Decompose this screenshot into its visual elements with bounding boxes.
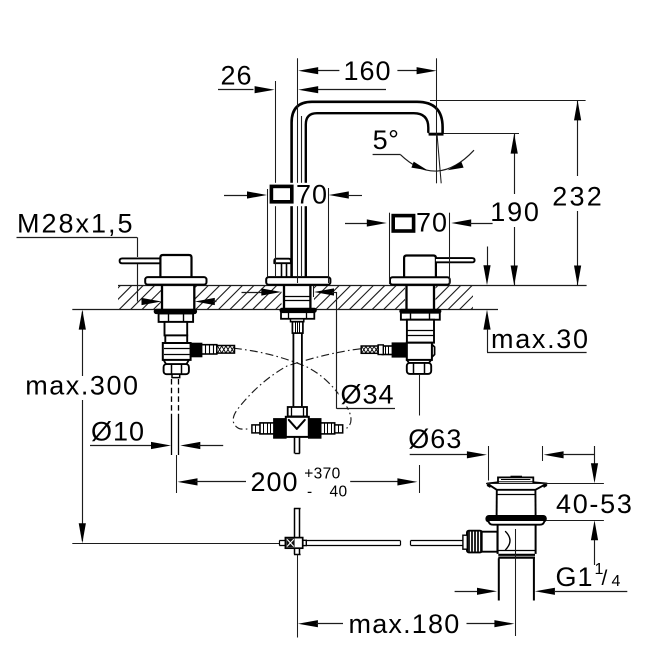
dimension 232 line xyxy=(577,100,579,176)
right handle body xyxy=(404,256,436,278)
vertical pull rod xyxy=(294,508,296,538)
max180 dim line left xyxy=(298,620,318,627)
svg-text:Ø10: Ø10 xyxy=(91,417,145,447)
svg-text:232: 232 xyxy=(552,181,604,211)
rod coupling block xyxy=(285,538,302,549)
dia63 left extension xyxy=(488,446,490,481)
drain tail pipe xyxy=(498,558,500,600)
svg-text:M28x1,5: M28x1,5 xyxy=(17,209,135,239)
square70 centre square symbol xyxy=(271,186,291,201)
right hose nut xyxy=(392,343,406,357)
square70 centre label backing xyxy=(268,183,327,206)
right hose connector xyxy=(382,346,392,355)
dia34 leader vertical xyxy=(336,292,338,409)
left handle lever xyxy=(120,258,161,263)
left hose nut xyxy=(191,344,202,357)
left braided hose xyxy=(217,346,235,354)
drain flange lip xyxy=(489,521,545,525)
square70 right right extension xyxy=(449,213,451,284)
centre shank in deck xyxy=(283,285,285,308)
left valve outlet stub xyxy=(172,374,180,377)
max180 right extension (drain centreline) xyxy=(515,529,517,636)
svg-text:G1: G1 xyxy=(556,562,594,592)
left valve bottom nut xyxy=(164,364,189,374)
extension line spout tip x=436.8 xyxy=(436,58,438,183)
spout mouth aerator xyxy=(429,133,444,136)
dimension 26 leader xyxy=(218,89,254,91)
svg-text:70: 70 xyxy=(416,208,448,238)
pull rod solid xyxy=(171,419,173,455)
right braided hose xyxy=(361,346,378,353)
left washer xyxy=(154,309,196,313)
M28 left arrow xyxy=(142,298,162,305)
tee outlet pipe xyxy=(294,437,296,454)
svg-text:5°: 5° xyxy=(373,125,400,155)
left valve body upper xyxy=(165,322,188,336)
flexible hose phantom left-to-tee xyxy=(234,348,351,428)
4053 bottom arrow xyxy=(591,520,598,540)
dia63 dim line xyxy=(410,454,467,456)
drain gasket xyxy=(486,516,546,522)
horizontal rod left stub xyxy=(279,540,285,542)
horizontal rod segment A xyxy=(306,540,400,542)
svg-text:Ø63: Ø63 xyxy=(408,424,462,454)
max180 left extension xyxy=(297,555,299,638)
5 degree tilted ray xyxy=(437,135,441,183)
drain body xyxy=(497,525,499,554)
drain thread collar xyxy=(498,554,535,556)
left locknut xyxy=(159,314,194,322)
svg-text:+370: +370 xyxy=(304,465,341,482)
right valve centre extension xyxy=(419,374,421,416)
extension line x=275 xyxy=(275,81,277,277)
4053 top arrow xyxy=(594,446,596,466)
svg-text:-: - xyxy=(307,484,313,501)
drain neck xyxy=(496,490,498,516)
centre thread block xyxy=(292,322,303,333)
tee right tip xyxy=(335,425,343,433)
right valve bottom nut xyxy=(407,363,431,374)
svg-text:max.180: max.180 xyxy=(349,609,461,639)
dimension 160 line left xyxy=(316,70,339,72)
dim200 line left xyxy=(178,478,198,485)
spout inner shading line xyxy=(301,116,303,276)
extension line spout centre x=298 xyxy=(297,58,299,283)
drain plug cap xyxy=(498,477,533,482)
right escutcheon xyxy=(390,277,450,284)
dia34 label backing xyxy=(339,382,395,407)
dia63 right extension xyxy=(542,446,544,461)
svg-text:Ø34: Ø34 xyxy=(341,380,395,410)
4053 top reference line xyxy=(486,483,604,485)
dimension 160 line right xyxy=(397,70,417,72)
svg-text:190: 190 xyxy=(490,197,540,227)
square70 centre right extension xyxy=(328,188,330,283)
dimension 190 line xyxy=(514,134,516,194)
left hose connector xyxy=(202,345,217,354)
M28 right arrow xyxy=(195,298,215,305)
square70 centre dim line xyxy=(224,195,248,197)
max300 bottom reference line xyxy=(72,543,279,545)
svg-text:160: 160 xyxy=(344,56,392,86)
dim200 line right xyxy=(350,481,399,483)
M28x1,5 leader xyxy=(17,237,138,239)
right hose rings xyxy=(378,345,383,355)
dia34 underline xyxy=(337,408,395,410)
dia10 right arrow xyxy=(180,442,200,449)
tee right coupling nut xyxy=(309,419,321,438)
svg-text:max.300: max.300 xyxy=(25,371,139,401)
pop-up lift rod knob xyxy=(274,259,291,264)
left valve body mid xyxy=(165,335,187,343)
190 top reference line xyxy=(444,133,520,135)
right valve elbow xyxy=(407,343,432,360)
5 degree leader and arc xyxy=(373,154,401,156)
4053 bottom reference line xyxy=(546,520,604,522)
svg-text:40-53: 40-53 xyxy=(556,489,634,519)
tee left tip xyxy=(252,425,260,433)
G114 dim line xyxy=(455,591,478,593)
centre locknut xyxy=(281,312,314,319)
flexible hose phantom right-to-tee xyxy=(233,349,360,429)
dia10 leader xyxy=(90,445,151,447)
centre washer xyxy=(280,308,316,312)
square70 centre left extension xyxy=(267,189,269,277)
centre reducer step xyxy=(291,319,304,322)
drain knurled knob xyxy=(467,531,482,553)
rod centre extension xyxy=(176,455,178,493)
tee body xyxy=(286,417,309,437)
spout escutcheon xyxy=(266,277,330,285)
square70 right left extension xyxy=(389,213,391,284)
dimension 26 right arrow xyxy=(298,86,318,93)
tee left coupling nut xyxy=(274,419,286,438)
deck underside line xyxy=(72,309,498,311)
drain side port xyxy=(482,532,498,552)
square70 right square symbol xyxy=(393,216,413,231)
max300 dim line xyxy=(82,312,84,377)
right valve body xyxy=(407,320,434,343)
tee right connector xyxy=(321,423,335,434)
left escutcheon xyxy=(145,277,206,285)
left handle body xyxy=(160,255,191,277)
max30 top arrow xyxy=(487,247,489,267)
vertical rod lower stub xyxy=(294,548,296,554)
dia34 dim line right xyxy=(314,288,334,295)
deck top surface line xyxy=(118,285,587,287)
pop-up lift rod stem xyxy=(281,263,283,277)
svg-text:4: 4 xyxy=(612,573,622,590)
dia34 hole right extension xyxy=(313,286,315,298)
max30 underline xyxy=(487,352,587,354)
max30 bottom arrow xyxy=(483,310,490,330)
right shank in deck xyxy=(405,285,407,309)
spout tube outline xyxy=(292,102,443,277)
centre supply pipe xyxy=(292,333,294,406)
dimension 26 left arrow xyxy=(255,86,275,93)
tee top nut xyxy=(288,407,307,416)
left valve taper xyxy=(164,360,189,364)
left valve elbow xyxy=(163,343,191,360)
drain plug cone brim xyxy=(487,482,547,490)
svg-text:26: 26 xyxy=(221,61,253,91)
232 top reference line xyxy=(430,100,586,102)
svg-text:max.30: max.30 xyxy=(491,324,590,354)
right handle lever xyxy=(436,258,475,262)
svg-text:200: 200 xyxy=(251,467,299,497)
tee left connector xyxy=(260,423,274,434)
tee check valve symbol xyxy=(289,420,305,429)
svg-text:/: / xyxy=(602,567,609,590)
horizontal rod segment B xyxy=(411,540,467,542)
square70 right dim line xyxy=(345,223,371,225)
svg-text:70: 70 xyxy=(296,180,328,210)
right locknut xyxy=(401,313,440,320)
right valve taper xyxy=(407,360,431,363)
drain rod shaft rings xyxy=(463,535,467,549)
left shank in deck xyxy=(161,285,163,309)
max180 dim line right xyxy=(467,623,497,625)
svg-text:40: 40 xyxy=(330,484,348,501)
right washer xyxy=(400,309,441,313)
pull rod hidden (dashed) xyxy=(171,379,173,419)
dia34 dim line left xyxy=(242,292,263,294)
